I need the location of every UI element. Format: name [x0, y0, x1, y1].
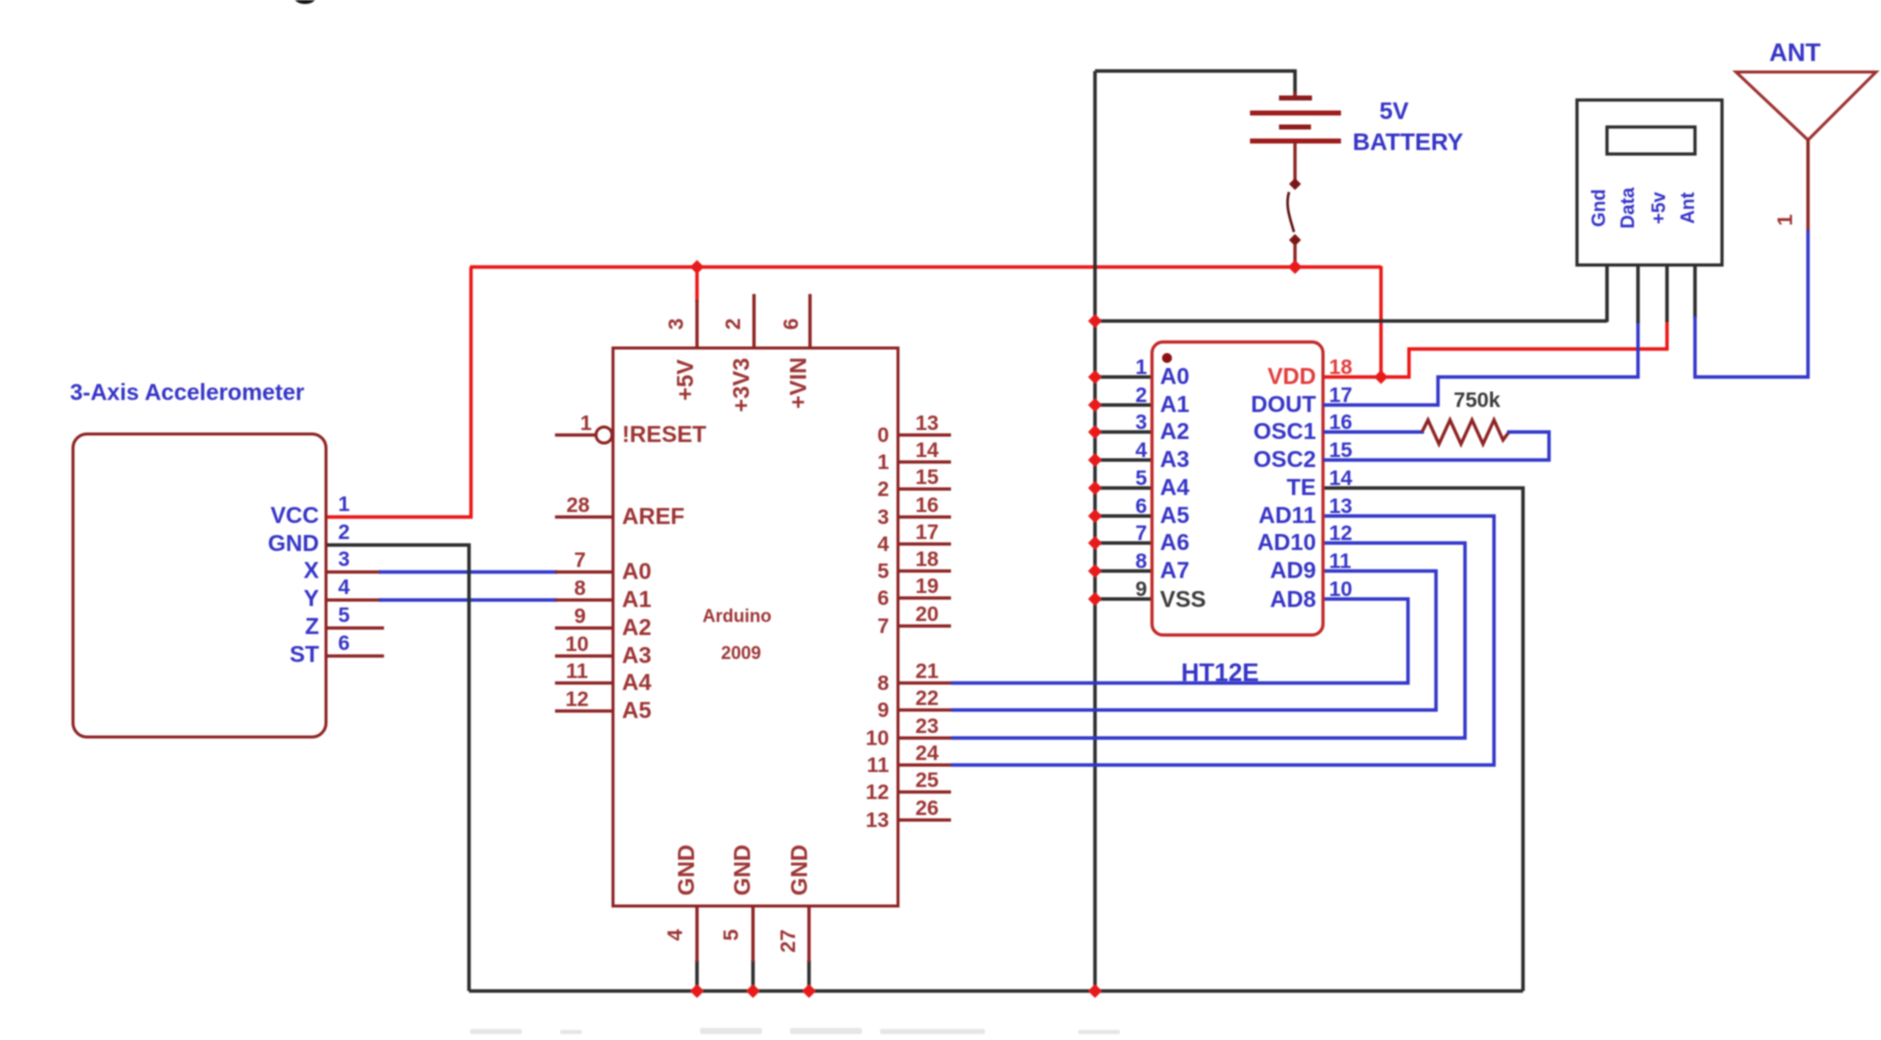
svg-text:26: 26 — [915, 797, 938, 820]
svg-text:4: 4 — [664, 929, 687, 941]
junction ground bus / HT12E pin5 — [1088, 481, 1102, 495]
svg-text:1: 1 — [338, 493, 350, 516]
Arduino !RESET bubble — [596, 427, 612, 443]
svg-text:6: 6 — [1135, 495, 1147, 518]
svg-text:4: 4 — [877, 533, 889, 556]
svg-text:24: 24 — [915, 742, 939, 765]
switch to rail lead — [1293, 244, 1296, 266]
svg-text:16: 16 — [915, 494, 938, 517]
svg-text:3: 3 — [338, 548, 350, 571]
switch bottom contact — [1289, 234, 1301, 246]
svg-text:+5V: +5V — [672, 359, 698, 401]
HT12E right labels — [1251, 363, 1316, 612]
battery plate 2 (long) — [1250, 111, 1341, 116]
svg-text:7: 7 — [1135, 522, 1147, 545]
svg-text:7: 7 — [877, 615, 889, 638]
wire +5V branch to Arduino +5V pin (red) — [695, 267, 698, 302]
svg-text:AD9: AD9 — [1270, 557, 1316, 583]
svg-text:A1: A1 — [1160, 391, 1190, 417]
svg-text:A0: A0 — [1160, 363, 1189, 389]
svg-text:11: 11 — [566, 660, 589, 683]
wire Arduino 24 to AD11 (blue) — [951, 516, 1494, 765]
HT12E pin-1 mark — [1162, 353, 1172, 363]
svg-text:6: 6 — [780, 318, 803, 330]
svg-text:A6: A6 — [1160, 529, 1189, 555]
wire Arduino GND pin 4 to bus (black) — [695, 960, 699, 991]
battery plate 4 (long) — [1250, 139, 1341, 144]
svg-text:A3: A3 — [1160, 446, 1189, 472]
svg-text:1: 1 — [580, 412, 592, 435]
junction bottom bus / Arduino GND 4 — [690, 984, 704, 998]
accelerometer body — [73, 434, 326, 737]
svg-text:8: 8 — [877, 672, 889, 695]
svg-text:2009: 2009 — [721, 643, 761, 663]
svg-text:A4: A4 — [622, 669, 652, 695]
svg-text:GND: GND — [786, 844, 812, 895]
Arduino pin 3 +5V stub (top) — [695, 300, 698, 348]
svg-text:11: 11 — [867, 754, 890, 777]
svg-text:9: 9 — [1135, 578, 1147, 601]
svg-text:8: 8 — [1135, 550, 1147, 573]
Arduino pin numbers 13-20 — [915, 412, 939, 626]
svg-text:A2: A2 — [1160, 418, 1189, 444]
wire resistor to OSC2 (blue) — [1323, 432, 1549, 460]
wire Y to Arduino A1 (blue) — [379, 598, 557, 601]
svg-text:12: 12 — [1329, 522, 1352, 545]
svg-text:BATTERY: BATTERY — [1353, 129, 1464, 156]
svg-text:5: 5 — [720, 929, 743, 941]
svg-text:18: 18 — [915, 548, 939, 571]
junction ground bus / HT12E pin3 — [1088, 425, 1102, 439]
svg-text:A2: A2 — [622, 614, 651, 640]
svg-text:ANT: ANT — [1769, 39, 1820, 67]
svg-text:19: 19 — [915, 575, 938, 598]
Arduino pin 6 +VIN stub (top) — [808, 294, 811, 348]
svg-text:VDD: VDD — [1267, 363, 1316, 389]
svg-text:21: 21 — [915, 660, 939, 683]
svg-text:VCC: VCC — [270, 502, 319, 528]
Arduino GND stub pin 5 (bottom) — [751, 906, 754, 962]
svg-text:2: 2 — [722, 318, 745, 330]
svg-text:A7: A7 — [1160, 557, 1189, 583]
Arduino 2009 body — [613, 348, 898, 906]
svg-text:12: 12 — [866, 781, 889, 804]
svg-text:4: 4 — [338, 576, 350, 599]
Arduino GND stub pin 27 (bottom) — [807, 906, 810, 962]
wire DOUT to transmitter Data (blue) — [1323, 321, 1638, 405]
Arduino right pins rows 8-13 (stubs) — [898, 683, 951, 820]
Arduino pin 2 +3V3 stub (top) — [752, 294, 755, 348]
Arduino digital names 0-7 — [877, 424, 889, 638]
svg-text:9: 9 — [877, 699, 889, 722]
HT12E pin numbers 18-10 — [1329, 356, 1353, 601]
wire Arduino 23 to AD10 (blue) — [951, 543, 1465, 738]
antenna triangle — [1736, 72, 1876, 140]
svg-text:3: 3 — [877, 506, 889, 529]
junction +5V rail / battery switch — [1288, 260, 1302, 274]
svg-text:750k: 750k — [1454, 389, 1501, 412]
wire Arduino 21 to AD8 (blue) — [951, 599, 1408, 683]
wire Arduino GND pin 5 to bus (black) — [751, 960, 755, 991]
junction bottom bus / ground vertical — [1088, 984, 1102, 998]
junction +5V rail / Arduino +5V — [690, 260, 704, 274]
wire TE to ground bus (black) — [1323, 488, 1523, 991]
transmitter Data pin (black) — [1636, 265, 1640, 323]
wire accelerometer GND down left side (black) — [327, 545, 469, 991]
Arduino pin 8 A1 stub — [555, 598, 613, 601]
svg-text:Y: Y — [304, 585, 319, 611]
svg-text:HT12E: HT12E — [1181, 659, 1259, 687]
HT12E pin numbers 1-9 — [1135, 356, 1147, 601]
svg-text:AD8: AD8 — [1270, 586, 1316, 612]
Arduino pin 10 A3 stub — [555, 654, 613, 657]
Arduino pin numbers 21-26 — [915, 660, 939, 820]
wire Ant pin to antenna (blue) — [1695, 229, 1808, 377]
svg-text:22: 22 — [915, 687, 938, 710]
svg-text:2: 2 — [338, 521, 350, 544]
svg-text:3: 3 — [1135, 411, 1147, 434]
svg-text:Ant: Ant — [1678, 192, 1699, 224]
svg-text:0: 0 — [877, 424, 889, 447]
wire X to Arduino A0 (blue) — [379, 570, 557, 573]
junction ground bus / HT12E pin2 — [1088, 398, 1102, 412]
svg-text:Gnd: Gnd — [1589, 189, 1610, 227]
junction bottom bus / Arduino GND 5 — [746, 984, 760, 998]
svg-text:3-Axis Accelerometer: 3-Axis Accelerometer — [70, 379, 304, 405]
battery plate 3 (short) — [1279, 125, 1311, 130]
switch lever — [1288, 192, 1294, 232]
svg-text:OSC2: OSC2 — [1253, 446, 1316, 472]
svg-text:A1: A1 — [622, 586, 652, 612]
svg-text:AD10: AD10 — [1257, 529, 1316, 555]
Arduino GND stub pin 4 (bottom) — [695, 906, 698, 962]
svg-text:4: 4 — [1135, 439, 1147, 462]
svg-text:14: 14 — [1329, 467, 1353, 490]
svg-text:10: 10 — [1329, 578, 1352, 601]
svg-text:12: 12 — [565, 688, 588, 711]
svg-text:28: 28 — [566, 494, 590, 517]
HT12E address labels A0-A7 and VSS — [1160, 363, 1206, 612]
junction ground bus / HT12E pin1 — [1088, 370, 1102, 384]
svg-text:GND: GND — [729, 844, 755, 895]
wire OSC1 to resistor (blue) — [1323, 430, 1424, 433]
transmitter +5v pin (black) — [1665, 265, 1669, 322]
svg-text:AD11: AD11 — [1258, 502, 1316, 528]
junction bottom bus / Arduino GND 27 — [802, 984, 816, 998]
svg-text:7: 7 — [574, 549, 586, 572]
ground bus top to battery (black) — [1095, 71, 1295, 96]
svg-text:8: 8 — [574, 577, 586, 600]
Arduino pin 12 A5 stub — [555, 709, 613, 712]
wire VDD pin to junction (red) — [1323, 375, 1381, 378]
svg-text:20: 20 — [915, 603, 938, 626]
wire Arduino 22 to AD9 (blue) — [951, 571, 1436, 710]
HT12E body — [1152, 342, 1323, 635]
battery plate 1 (short) — [1279, 96, 1312, 101]
svg-text:11: 11 — [1329, 550, 1352, 573]
wire VDD junction to transmitter +5v pin (red) — [1381, 321, 1667, 377]
svg-text:Z: Z — [305, 613, 319, 639]
battery top lead — [1293, 92, 1296, 98]
junction ground bus / HT12E pin9 VSS — [1088, 592, 1102, 606]
svg-text:13: 13 — [866, 809, 889, 832]
svg-text:13: 13 — [1329, 495, 1352, 518]
svg-text:9: 9 — [574, 605, 586, 628]
RF transmitter module body — [1577, 100, 1722, 265]
svg-text:13: 13 — [915, 412, 938, 435]
svg-text:+5v: +5v — [1649, 191, 1670, 224]
svg-text:A0: A0 — [622, 558, 651, 584]
ground bus vertical (black) — [1093, 71, 1097, 991]
svg-text:1: 1 — [877, 451, 889, 474]
junction ground bus / HT12E pin6 — [1088, 509, 1102, 523]
wire ground bus to transmitter Gnd pin (black) — [1095, 319, 1607, 323]
svg-text:TE: TE — [1287, 474, 1316, 500]
ground bus bottom (black) — [469, 989, 1523, 993]
resistor 750k zigzag — [1422, 420, 1509, 444]
svg-text:5: 5 — [877, 560, 889, 583]
svg-text:1: 1 — [1135, 356, 1147, 379]
svg-text:+3V3: +3V3 — [728, 358, 754, 412]
transmitter Ant pin (black) — [1693, 265, 1697, 318]
junction ground bus / HT12E pin4 — [1088, 453, 1102, 467]
junction ground bus / HT12E pin8 — [1088, 564, 1102, 578]
svg-text:+VIN: +VIN — [785, 357, 811, 409]
Arduino pin 1 !RESET stub — [555, 433, 596, 436]
svg-text:GND: GND — [673, 844, 699, 895]
svg-text:18: 18 — [1329, 356, 1353, 379]
svg-text:A4: A4 — [1160, 474, 1190, 500]
svg-text:A5: A5 — [622, 697, 652, 723]
page title fragment (cut-off letter) — [294, 0, 316, 4]
svg-text:25: 25 — [915, 769, 939, 792]
svg-text:15: 15 — [915, 466, 939, 489]
svg-text:ST: ST — [290, 641, 319, 667]
svg-text:Arduino: Arduino — [703, 606, 772, 626]
svg-text:!RESET: !RESET — [622, 421, 706, 447]
Arduino pin 11 A4 stub — [555, 681, 613, 684]
junction ground bus / transmitter Gnd — [1088, 314, 1102, 328]
svg-text:27: 27 — [777, 929, 800, 952]
svg-text:17: 17 — [915, 521, 938, 544]
wire Arduino GND pin 27 to bus (black) — [807, 960, 811, 991]
switch top contact — [1289, 178, 1301, 190]
wire +5V rail horizontal (red) — [470, 265, 1381, 268]
accelerometer pin 6 stub ST — [327, 654, 384, 657]
svg-text:6: 6 — [338, 632, 350, 655]
svg-text:5: 5 — [338, 604, 350, 627]
junction VDD node — [1374, 370, 1388, 384]
junction ground bus / HT12E pin7 — [1088, 536, 1102, 550]
accelerometer pin 3 stub — [327, 570, 381, 573]
svg-text:2: 2 — [1135, 384, 1147, 407]
wire +5V rail drop to VDD (red) — [1379, 266, 1382, 378]
svg-text:2: 2 — [877, 478, 889, 501]
accelerometer pin 4 stub — [327, 598, 381, 601]
Arduino pin 7 A0 stub — [555, 570, 613, 573]
svg-text:A3: A3 — [622, 642, 651, 668]
Arduino pin 9 A2 stub — [555, 626, 613, 629]
svg-text:5: 5 — [1135, 467, 1147, 490]
svg-text:DOUT: DOUT — [1251, 391, 1316, 417]
svg-text:23: 23 — [915, 715, 938, 738]
RF transmitter window — [1607, 127, 1695, 154]
svg-text:14: 14 — [915, 439, 939, 462]
Arduino digital names 8-13 — [866, 672, 890, 832]
svg-text:10: 10 — [565, 633, 588, 656]
HT12E left pin wires 1-9 (black) — [1095, 377, 1152, 599]
svg-text:3: 3 — [665, 318, 688, 330]
transmitter Gnd pin (black) — [1605, 265, 1609, 322]
svg-text:5V: 5V — [1379, 98, 1408, 125]
antenna feed line (dark red) — [1806, 140, 1809, 230]
battery bottom lead — [1293, 143, 1296, 182]
svg-text:Data: Data — [1618, 187, 1639, 229]
svg-text:10: 10 — [866, 727, 889, 750]
svg-text:AREF: AREF — [622, 503, 685, 529]
Arduino right pins rows 0-7 (stubs) — [898, 435, 951, 626]
wire VCC pin to +5V rail (red, up) — [327, 267, 471, 517]
faint cropped caption remnants — [470, 1028, 1120, 1034]
Arduino pin 28 AREF stub — [555, 515, 613, 518]
svg-text:GND: GND — [268, 530, 319, 556]
svg-text:1: 1 — [1774, 214, 1797, 226]
svg-text:A5: A5 — [1160, 502, 1190, 528]
svg-text:VSS: VSS — [1160, 586, 1206, 612]
svg-text:X: X — [304, 557, 320, 583]
svg-text:6: 6 — [877, 587, 889, 610]
accelerometer pin 5 stub Z — [327, 626, 384, 629]
svg-text:OSC1: OSC1 — [1253, 418, 1316, 444]
